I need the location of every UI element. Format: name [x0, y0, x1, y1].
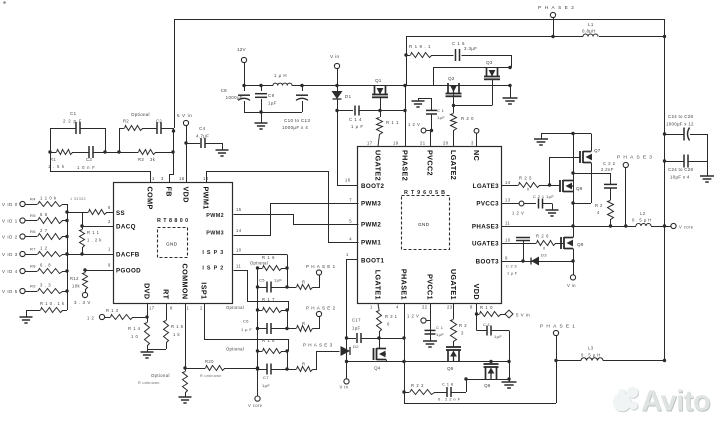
svg-text:1 2: 1 2 — [87, 316, 94, 321]
svg-text:R 2 1: R 2 1 — [385, 314, 398, 319]
svg-text:PHASE3: PHASE3 — [617, 155, 655, 161]
svg-text:11: 11 — [505, 221, 510, 226]
svg-text:1 k: 1 k — [173, 332, 180, 337]
svg-text:1 μ H: 1 μ H — [274, 73, 287, 78]
wire: ISP2 link — [234, 271, 289, 311]
resistor R21 (LGATE1) — [378, 304, 379, 311]
svg-text:4: 4 — [597, 210, 600, 215]
svg-text:R: R — [302, 321, 305, 326]
svg-text:1 2: 1 2 — [40, 246, 48, 251]
svg-text:NC: NC — [472, 150, 481, 161]
wire: DACQ — [82, 226, 113, 228]
wire: PVCC2 pin lead — [430, 131, 432, 147]
wire: feedback top rail — [174, 19, 665, 21]
svg-text:DACQ: DACQ — [116, 224, 136, 231]
svg-text:12V: 12V — [237, 47, 247, 52]
terminal Vin (phase3) — [573, 261, 575, 275]
svg-text:1: 1 — [370, 305, 373, 310]
resistor R26 (UGATE3) — [502, 243, 536, 245]
terminal PHASE2 — [313, 317, 320, 329]
resistor optional (COMMON to gnd) — [185, 368, 187, 371]
terminal NC stub — [474, 128, 479, 133]
svg-text:R 2 2: R 2 2 — [411, 383, 424, 388]
svg-text:Q8: Q8 — [576, 186, 583, 191]
capacitor C18 0.22nF — [434, 392, 447, 394]
wire: C20 to ground — [509, 331, 511, 380]
resistor R15 (RT) — [166, 304, 168, 321]
resistor R sense — [287, 328, 296, 330]
svg-text:C 1: C 1 — [483, 322, 491, 327]
artifact dot — [3, 1, 6, 4]
svg-text:LGATE2: LGATE2 — [449, 150, 458, 180]
svg-text:V ID 3: V ID 3 — [2, 252, 18, 257]
svg-text:0: 0 — [543, 246, 546, 251]
op-amp U2 RT9605B driver body — [358, 147, 502, 304]
svg-text:Optional: Optional — [226, 305, 244, 310]
svg-text:0 . 5 μ H: 0 . 5 μ H — [581, 353, 601, 358]
svg-text:C 1 8: C 1 8 — [442, 382, 454, 387]
svg-text:PHASE1: PHASE1 — [306, 264, 337, 269]
resistor R11 (UGATE2 gate) — [380, 111, 382, 118]
wire: PWM2 link — [234, 215, 359, 225]
svg-text:R 2 5: R 2 5 — [519, 176, 532, 181]
svg-text:R5: R5 — [30, 213, 36, 218]
wire: Q7 gate branch — [550, 158, 581, 186]
terminal DVD input — [99, 314, 104, 319]
svg-text:PHASE1: PHASE1 — [400, 269, 409, 300]
svg-text:8: 8 — [170, 306, 173, 311]
wire: loop1-loop2 link — [105, 152, 119, 154]
capacitor C10-C13 1000uF x4 — [300, 84, 303, 87]
svg-text:V ID 1: V ID 1 — [2, 219, 18, 224]
svg-text:1 1 0 k: 1 1 0 k — [40, 196, 57, 201]
svg-text:LGATE3: LGATE3 — [473, 183, 500, 190]
svg-text:14: 14 — [505, 180, 511, 185]
svg-text:R 1 3: R 1 3 — [106, 308, 119, 313]
resistor R18 (optional) — [258, 351, 263, 353]
svg-text:R7: R7 — [30, 247, 36, 252]
resistor R2 (optional) — [119, 128, 121, 152]
svg-text:1 μ F: 1 μ F — [351, 124, 364, 129]
svg-text:1: 1 — [108, 247, 111, 252]
svg-text:COMMON: COMMON — [181, 264, 190, 300]
svg-text:3: 3 — [471, 141, 474, 146]
svg-text:Optional: Optional — [226, 347, 244, 352]
wire: bottom return rail — [404, 403, 556, 405]
svg-text:2 7: 2 7 — [40, 228, 48, 233]
svg-text:4: 4 — [349, 237, 352, 242]
resistor R1 1.5k — [57, 150, 73, 155]
svg-text:C5: C5 — [259, 278, 265, 283]
svg-text:PWM2: PWM2 — [206, 213, 224, 219]
svg-text:V in: V in — [340, 385, 349, 390]
svg-text:1μF: 1μF — [262, 383, 270, 388]
resistor R sense — [287, 369, 296, 371]
svg-text:Q3: Q3 — [486, 60, 493, 65]
svg-text:1: 1 — [346, 252, 349, 257]
svg-text:ISP1: ISP1 — [200, 282, 209, 299]
svg-text:C24 to C28: C24 to C28 — [668, 114, 693, 119]
node PHASE3 sense — [313, 352, 340, 370]
svg-text:0 . 2 2 n F: 0 . 2 2 n F — [438, 397, 461, 402]
svg-text:7: 7 — [349, 198, 352, 203]
svg-text:0.8μH: 0.8μH — [582, 29, 596, 34]
svg-text:R 1 5: R 1 5 — [171, 324, 184, 329]
capacitor C19 (PVCC1) — [430, 304, 432, 335]
svg-text:RT9605B: RT9605B — [404, 190, 448, 196]
svg-text:BOOT1: BOOT1 — [361, 258, 384, 265]
svg-text:Q9: Q9 — [577, 242, 584, 247]
svg-text:R 1 8: R 1 8 — [262, 338, 275, 343]
svg-text:R 1 9 . 1: R 1 9 . 1 — [409, 44, 431, 49]
svg-text:C 2 2: C 2 2 — [603, 161, 616, 166]
ground rail phase3 low side — [541, 133, 591, 135]
resistor R20 (LGATE2) — [453, 106, 455, 114]
resistor R14 — [147, 317, 149, 322]
diode D1 — [337, 86, 339, 92]
wire: phase3 node vertical — [573, 134, 575, 227]
transistor Q3 — [486, 68, 488, 77]
svg-text:I S P 2: I S P 2 — [202, 266, 224, 272]
svg-text:Q7: Q7 — [594, 148, 601, 153]
U2 exposed pad GND — [402, 196, 450, 250]
diode D3 — [531, 257, 539, 266]
svg-text:GND: GND — [418, 222, 430, 227]
svg-text:Optional: Optional — [151, 373, 170, 378]
svg-text:4: 4 — [396, 305, 399, 310]
svg-text:19: 19 — [393, 141, 399, 146]
capacitor C17 1uF — [347, 338, 357, 340]
svg-text:BOOT3: BOOT3 — [476, 259, 499, 266]
svg-text:V core: V core — [679, 225, 694, 230]
wire: BOOT3 line — [502, 261, 573, 263]
svg-text:3.3μF: 3.3μF — [464, 46, 477, 51]
svg-text:V core: V core — [248, 403, 263, 408]
svg-text:22: 22 — [422, 305, 428, 310]
svg-text:1000μF x 12: 1000μF x 12 — [666, 122, 694, 127]
svg-text:14: 14 — [236, 228, 242, 233]
svg-text:Q1: Q1 — [375, 78, 382, 83]
capacitor C4 4.7uF — [186, 143, 200, 145]
svg-text:R 1 6: R 1 6 — [262, 255, 275, 260]
svg-text:17: 17 — [367, 141, 373, 146]
svg-text:2: 2 — [200, 306, 203, 311]
transistor Q5 — [446, 346, 461, 348]
resistor R10b to 5Vin — [477, 314, 480, 316]
svg-text:16: 16 — [179, 176, 185, 181]
ground: cap bank — [700, 175, 714, 177]
svg-text:LGATE1: LGATE1 — [374, 270, 383, 300]
svg-text:RT8800: RT8800 — [157, 218, 191, 224]
svg-text:21: 21 — [420, 141, 426, 146]
resistor R19 — [406, 55, 410, 57]
svg-text:6 . 8: 6 . 8 — [40, 263, 51, 268]
svg-text:1 . 2 k: 1 . 2 k — [87, 238, 102, 243]
wire: ISP1 run — [204, 304, 206, 340]
wire: 12V rail — [244, 85, 510, 87]
svg-text:Optional: Optional — [131, 112, 150, 117]
svg-text:PWM1: PWM1 — [361, 240, 381, 247]
wire: Q6 source to ground — [466, 379, 509, 381]
svg-text:R 1 0: R 1 0 — [480, 305, 493, 310]
svg-text:R 2 6: R 2 6 — [536, 234, 549, 239]
resistor R13 — [132, 317, 147, 319]
svg-text:R 2 0: R 2 0 — [461, 116, 474, 121]
capacitor C23 1uF (BOOT3) — [516, 237, 530, 239]
svg-text:6: 6 — [108, 205, 111, 210]
svg-text:1000μF x 4: 1000μF x 4 — [282, 125, 308, 130]
svg-text:COMP: COMP — [146, 187, 155, 210]
resistor R sense — [287, 287, 296, 289]
svg-text:R 2: R 2 — [595, 203, 603, 208]
svg-text:Optional: Optional — [250, 261, 268, 266]
resistor R3 3k — [119, 152, 138, 154]
svg-text:11: 11 — [236, 264, 241, 269]
svg-text:8: 8 — [470, 305, 473, 310]
svg-text:FB: FB — [165, 187, 174, 197]
svg-text:BOOT2: BOOT2 — [361, 183, 384, 190]
svg-text:Q2: Q2 — [448, 76, 455, 81]
svg-text:V ID 4: V ID 4 — [2, 269, 18, 274]
resistor R23 (UGATE1) — [453, 304, 455, 320]
transistor Q7 — [579, 151, 581, 163]
svg-text:L2: L2 — [640, 211, 646, 216]
svg-text:9: 9 — [505, 256, 508, 261]
capacitor C15 (PVCC2) with ground — [431, 98, 433, 110]
wire: snubber riser — [406, 37, 408, 86]
wire: DVD pin — [147, 304, 149, 318]
svg-text:L1: L1 — [588, 22, 594, 27]
svg-text:1μF: 1μF — [546, 194, 554, 199]
svg-text:1μF: 1μF — [494, 334, 502, 339]
svg-text:1 0 n F: 1 0 n F — [77, 165, 96, 170]
svg-text:C6: C6 — [243, 319, 249, 324]
wire: PWM1 link — [207, 172, 359, 243]
diode D2 — [341, 346, 351, 356]
svg-text:1 2 V: 1 2 V — [407, 314, 419, 319]
svg-text:PGOOD: PGOOD — [116, 268, 141, 275]
wire: LGATE2 gate line — [454, 105, 493, 107]
svg-text:C7: C7 — [263, 375, 269, 380]
svg-text:1μF: 1μF — [436, 332, 444, 337]
transistor Q8 — [559, 180, 561, 192]
svg-text:1 2 V: 1 2 V — [408, 122, 420, 127]
svg-text:R 1 4: R 1 4 — [128, 326, 141, 331]
svg-text:V ID 5: V ID 5 — [2, 289, 18, 294]
svg-text:13: 13 — [505, 198, 511, 203]
svg-text:V ID 2: V ID 2 — [2, 235, 18, 240]
ground: C19 — [423, 340, 437, 342]
svg-text:R20: R20 — [205, 359, 214, 364]
svg-text:UGATE2: UGATE2 — [374, 150, 383, 181]
svg-text:R6: R6 — [30, 229, 36, 234]
svg-text:23: 23 — [447, 305, 453, 310]
svg-text:2 2 p F: 2 2 p F — [63, 119, 82, 124]
svg-text:C10 to C13: C10 to C13 — [284, 118, 310, 123]
capacitor C21 (PVCC3) — [502, 203, 536, 205]
wire: BOOT2 feed — [337, 111, 339, 186]
wire: phase3 rail — [502, 226, 636, 228]
svg-text:R12: R12 — [70, 276, 79, 281]
svg-text:1 33333: 1 33333 — [70, 197, 86, 201]
wire: phase2 switch node — [405, 86, 407, 147]
terminal 12V (PVCC2) — [426, 130, 431, 132]
transistor Q2 — [447, 83, 449, 94]
wire: phase2 to L1 line — [406, 36, 665, 38]
wire: Q2/Q3 drain link — [433, 67, 511, 69]
svg-text:DVD: DVD — [143, 283, 152, 299]
svg-text:SS: SS — [116, 210, 125, 217]
svg-text:D2: D2 — [353, 344, 359, 349]
svg-text:VDD: VDD — [472, 284, 481, 300]
op-amp U1 RT8800 controller body — [114, 183, 233, 304]
svg-text:0 . 5 μ H: 0 . 5 μ H — [632, 218, 652, 223]
svg-text:VDD: VDD — [182, 187, 191, 203]
svg-text:PWM3: PWM3 — [361, 201, 381, 208]
ground: C4 — [216, 149, 229, 151]
ground: R14/R15 — [141, 351, 154, 353]
wire: PGOOD — [85, 270, 113, 272]
svg-text:PWM1: PWM1 — [202, 187, 211, 210]
capacitor C14 1uF — [337, 110, 353, 112]
svg-text:3: 3 — [461, 331, 464, 336]
svg-text:1μF: 1μF — [274, 278, 282, 283]
ground: C21 — [546, 209, 559, 211]
svg-text:PVCC1: PVCC1 — [426, 274, 435, 300]
svg-text:10k: 10k — [72, 284, 80, 289]
svg-text:R: R — [302, 362, 305, 367]
wire: capacitor ground bus — [244, 112, 302, 114]
wire: ISP3 link — [233, 254, 287, 256]
capacitor C5 1uF — [258, 287, 267, 289]
svg-text:15: 15 — [236, 207, 242, 212]
wire: VID divider bus — [67, 204, 69, 310]
svg-text:10: 10 — [505, 238, 511, 243]
wire: COMP pin lead — [51, 153, 151, 183]
svg-text:10μF x 4: 10μF x 4 — [670, 175, 690, 180]
svg-text:1: 1 — [187, 306, 190, 311]
svg-text:C 1: C 1 — [437, 108, 445, 113]
svg-text:GND: GND — [166, 242, 178, 247]
transistor Q4 — [373, 348, 375, 360]
svg-text:PWM3: PWM3 — [206, 231, 224, 237]
svg-text:10: 10 — [236, 248, 242, 253]
svg-text:Avito: Avito — [641, 386, 710, 418]
svg-text:R 2: R 2 — [459, 323, 467, 328]
svg-text:5 6: 5 6 — [40, 212, 48, 217]
svg-text:13: 13 — [203, 176, 209, 181]
svg-text:R 1 1: R 1 1 — [87, 230, 100, 235]
terminal 3.3V — [82, 292, 87, 297]
svg-text:9: 9 — [108, 263, 111, 268]
resistor R16 (optional) — [258, 268, 263, 270]
ground: COMMON resistor — [179, 396, 192, 398]
capacitor C3 10nF — [72, 152, 89, 154]
resistor to SS pin — [67, 212, 82, 214]
resistor R17 (optional) — [258, 310, 263, 312]
svg-text:1 0: 1 0 — [131, 334, 138, 339]
svg-text:0: 0 — [387, 322, 390, 327]
svg-text:PWM2: PWM2 — [361, 222, 381, 229]
ground: Q2/Q3 source — [508, 84, 511, 87]
svg-text:1 μ F: 1 μ F — [507, 271, 518, 276]
capacitor C16 3.3uF — [431, 55, 454, 57]
svg-text:C4: C4 — [199, 126, 206, 131]
svg-text:UGATE1: UGATE1 — [449, 269, 458, 300]
capacitor C20 — [477, 330, 487, 332]
svg-text:Q6: Q6 — [484, 383, 491, 388]
svg-text:C1: C1 — [70, 111, 77, 116]
svg-text:PHASE3: PHASE3 — [303, 343, 334, 348]
wire: cap bank to ground — [707, 134, 709, 176]
svg-text:R2: R2 — [123, 119, 129, 124]
svg-text:R4: R4 — [30, 197, 36, 202]
svg-text:C24 to C28: C24 to C28 — [668, 167, 693, 172]
wire: FB pin lead — [172, 129, 175, 132]
wire: snubber to Q3 drain — [511, 55, 513, 68]
svg-text:V in: V in — [330, 54, 340, 59]
capacitor C2 — [142, 128, 157, 130]
svg-text:1μF: 1μF — [437, 115, 445, 120]
svg-text:I S P 3: I S P 3 — [202, 250, 224, 256]
svg-text:V ID 0: V ID 0 — [2, 202, 18, 207]
svg-text:PHASE1: PHASE1 — [540, 324, 578, 330]
svg-text:DACFB: DACFB — [116, 252, 140, 259]
resistor R22 — [404, 392, 409, 394]
wire: COMMON pin — [185, 304, 187, 369]
wire: PWM3 link — [234, 204, 359, 236]
terminal PHASE1 — [313, 276, 320, 288]
transistor Q1 — [374, 86, 376, 95]
svg-text:Q4: Q4 — [374, 366, 381, 371]
U1 exposed pad GND — [158, 228, 188, 258]
svg-text:R unknown: R unknown — [138, 381, 160, 385]
svg-text:PHASE2: PHASE2 — [538, 5, 577, 11]
svg-text:D1: D1 — [345, 94, 352, 99]
svg-text:C8: C8 — [221, 88, 228, 93]
terminal Vcore output — [665, 226, 672, 228]
wire: sense bus — [257, 268, 259, 396]
svg-text:16: 16 — [345, 178, 351, 183]
ground: phase3 — [534, 138, 548, 140]
svg-text:R9: R9 — [30, 284, 36, 289]
svg-text:R 1 1: R 1 1 — [386, 120, 399, 125]
svg-text:V in: V in — [567, 283, 576, 288]
svg-text:C2: C2 — [156, 119, 162, 124]
ground: Q6/C20 — [502, 381, 517, 383]
terminal Vin (boot1) — [346, 362, 348, 380]
ground: input filter — [261, 112, 263, 123]
svg-text:C 2 3: C 2 3 — [506, 264, 517, 269]
svg-text:UGATE3: UGATE3 — [472, 241, 499, 248]
capacitor C6 1uF — [258, 328, 267, 330]
wire: PHASE1 pin vertical — [404, 304, 406, 404]
capacitor C1 2.2pF — [50, 128, 52, 152]
svg-text:1 μ F: 1 μ F — [241, 327, 252, 332]
inductor L3 0.5uH — [556, 360, 581, 362]
svg-text:PVCC3: PVCC3 — [476, 201, 499, 208]
ground: VID bus — [20, 316, 33, 318]
resistor R11a 1.2k — [82, 212, 84, 229]
svg-text:R8: R8 — [30, 264, 36, 269]
svg-text:5: 5 — [349, 219, 352, 224]
svg-text:5 V in: 5 V in — [516, 313, 530, 318]
terminal Vcore sense — [255, 396, 260, 401]
svg-text:2: 2 — [108, 219, 111, 224]
wire: source rail — [347, 361, 510, 363]
svg-text:Q5: Q5 — [447, 366, 454, 371]
wire: FB riser to top rail — [174, 19, 176, 128]
